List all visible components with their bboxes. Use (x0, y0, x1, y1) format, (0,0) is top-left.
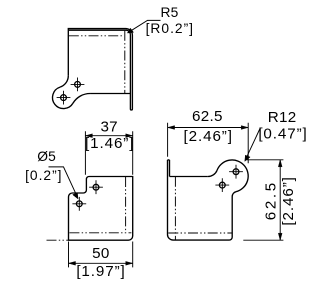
side view flange inner edge line (169, 160, 171, 177)
side view upper hole (233, 169, 239, 175)
dimension 50 extension lines (69, 242, 133, 268)
front view lower hole (76, 201, 82, 207)
dimension 62.5 vertical line (279, 160, 281, 240)
side view S-fillet from lobe to top edge (208, 170, 217, 176)
svg-text:50: 50 (92, 245, 110, 262)
dimension 37 right arrowhead (126, 134, 133, 138)
dimension 62.5 horizontal line (168, 127, 249, 129)
dimension 62.5 vertical bottom extension line (243, 239, 283, 241)
side view top edge (170, 176, 208, 178)
side view upper hole center mark (229, 165, 243, 179)
front view upper hole (93, 184, 99, 190)
top view plate outline (53, 29, 133, 110)
side view lower hole (219, 182, 225, 188)
dimension 62.5 vertical top extension line (247, 159, 284, 161)
dimension 50 left arrowhead (69, 261, 76, 265)
R5 leader line (128, 20, 161, 32)
dimension 50 line (69, 262, 133, 264)
front view outline (69, 177, 133, 241)
side view outline (168, 160, 249, 240)
front view lower hole center mark (72, 197, 86, 211)
svg-text:[2.46”]: [2.46”] (280, 176, 297, 225)
side view bend line vertical (dash-dot) (174, 177, 176, 240)
dimension 62.5 vertical top arrowhead (278, 160, 282, 167)
top view upper hole center mark (71, 78, 85, 92)
svg-text:[0.2”]: [0.2”] (25, 168, 62, 183)
svg-text:R12: R12 (268, 109, 297, 126)
R5 leader arrowhead (127, 28, 133, 33)
dimension 62.5 horizontal extension lines (168, 123, 249, 164)
front view bend line horizontal (dash-dot) (69, 232, 131, 234)
dimension 50 right arrowhead (126, 261, 133, 265)
svg-text:[R0.2”]: [R0.2”] (146, 21, 194, 36)
dimension 37 left arrowhead (85, 134, 92, 138)
top view upper hole (75, 82, 81, 88)
svg-text:[1.97”]: [1.97”] (76, 263, 125, 280)
R12 leader line (246, 129, 260, 160)
dimension 62.5 horizontal right arrowhead (241, 126, 248, 130)
svg-text:R5: R5 (160, 5, 178, 20)
dimension 62.5 vertical bottom arrowhead (278, 233, 282, 240)
dimension 62.5 horizontal left arrowhead (168, 126, 175, 130)
front view upper hole center mark (89, 180, 103, 194)
dimension 37 line (85, 135, 132, 137)
dimension 37 extension lines (85, 131, 132, 175)
side view lobe arc R12 (217, 160, 248, 192)
top view lower hole center mark (57, 91, 71, 105)
svg-text:37: 37 (100, 119, 118, 136)
svg-text:62.5: 62.5 (192, 108, 223, 125)
top view top edge inner line (69, 30, 130, 34)
front view bend line vertical (dash-dot) (125, 177, 127, 232)
diameter 5 leader arrowhead (73, 193, 78, 199)
top view right S-curve to bottom edge (73, 94, 90, 104)
diameter 5 leader line (49, 167, 78, 196)
R12 leader arrowhead (245, 155, 250, 161)
svg-text:[1.46”]: [1.46”] (85, 135, 134, 152)
svg-text:[0.47”]: [0.47”] (258, 126, 307, 143)
svg-text:Ø5: Ø5 (37, 149, 56, 164)
top view lobe arc (53, 87, 73, 108)
svg-text:[2.46”]: [2.46”] (184, 128, 233, 145)
top view lower hole (61, 95, 67, 101)
front view bend line tail (dash-dot, left of part) (47, 239, 69, 241)
top view bent flange inner edge line (129, 34, 131, 93)
side view bend line horizontal (dash-dot) (168, 232, 232, 234)
top view bend line horizontal (dash-dot) (69, 35, 123, 37)
side view flange top end cap (168, 159, 170, 161)
side view lower hole center mark (215, 178, 229, 192)
top view left fillet into lobe (60, 76, 68, 87)
svg-text:62.5: 62.5 (263, 180, 280, 220)
top view bend line vertical (dash-dot) (124, 31, 126, 94)
top view bottom edge (90, 93, 130, 95)
